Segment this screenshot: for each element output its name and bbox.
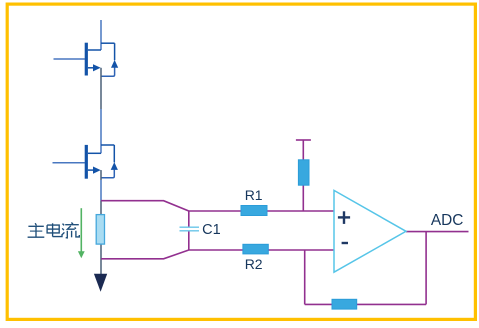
- svg-text:C1: C1: [202, 222, 221, 238]
- svg-text:R1: R1: [245, 187, 263, 203]
- svg-text:ADC: ADC: [431, 212, 464, 229]
- svg-text:R2: R2: [245, 256, 263, 272]
